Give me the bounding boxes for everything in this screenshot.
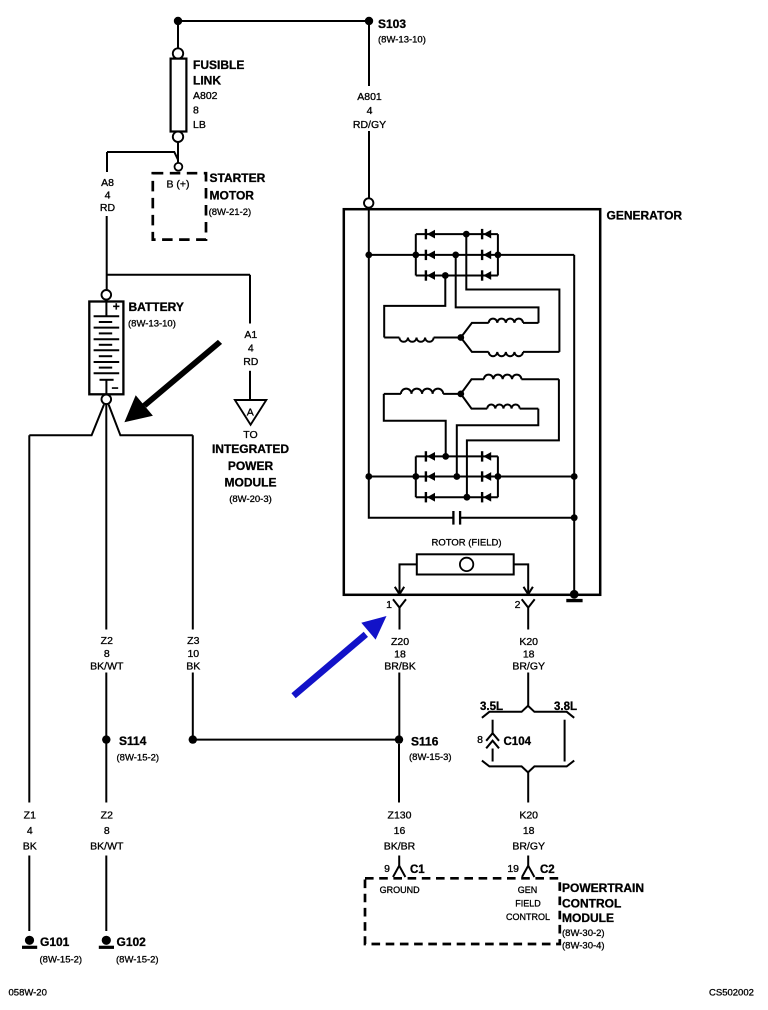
svg-text:16: 16 [394, 825, 406, 837]
connector C104 chevrons [486, 733, 499, 748]
wire fusible link to starter motor B(+) [177, 142, 179, 163]
svg-text:8: 8 [477, 734, 483, 746]
node dots on top bridge [365, 252, 372, 259]
svg-text:RD/GY: RD/GY [353, 119, 386, 131]
svg-text:POWERTRAIN: POWERTRAIN [562, 881, 644, 895]
svg-text:FUSIBLE: FUSIBLE [193, 58, 244, 72]
svg-text:4: 4 [105, 190, 111, 202]
wire stator phase A (top) [466, 234, 559, 352]
battery plates [105, 302, 107, 316]
svg-text:C1: C1 [410, 864, 425, 876]
svg-text:(8W-20-3): (8W-20-3) [229, 494, 272, 505]
wire lower phase A [467, 379, 559, 497]
wire Z1 left vertical [28, 435, 30, 802]
svg-text:(8W-30-2): (8W-30-2) [562, 928, 605, 939]
svg-text:GEN: GEN [518, 885, 538, 895]
svg-text:C2: C2 [540, 864, 555, 876]
stator winding lower wye: lower-right coil [461, 394, 487, 409]
svg-text:A: A [247, 407, 254, 419]
svg-text:G101: G101 [40, 935, 70, 949]
svg-text:BR/BK: BR/BK [384, 661, 416, 673]
battery bottom terminal circle [102, 395, 112, 405]
wire lower phase C [384, 394, 446, 457]
svg-text:Z2: Z2 [101, 810, 113, 822]
node capacitor-right junction [571, 514, 578, 521]
svg-text:K20: K20 [519, 810, 538, 822]
svg-text:S103: S103 [378, 17, 406, 31]
wire lower phase B [457, 409, 539, 477]
svg-text:BK: BK [23, 841, 37, 853]
svg-text:BR/GY: BR/GY [512, 661, 545, 673]
svg-text:9: 9 [384, 863, 390, 875]
ground G102 [102, 936, 111, 945]
svg-text:FIELD: FIELD [515, 899, 541, 909]
svg-text:4: 4 [27, 825, 33, 837]
svg-text:INTEGRATED: INTEGRATED [212, 442, 289, 456]
wire Z3 right vertical [192, 435, 194, 629]
svg-text:4: 4 [248, 343, 254, 355]
svg-text:(8W-15-2): (8W-15-2) [40, 955, 83, 966]
svg-text:(8W-13-10): (8W-13-10) [128, 319, 176, 330]
node upper wye center [457, 334, 464, 341]
wire A801 vertical [368, 25, 370, 86]
svg-text:STARTER: STARTER [210, 171, 266, 185]
svg-text:1: 1 [386, 599, 392, 611]
svg-text:18: 18 [394, 649, 406, 661]
svg-text:CONTROL: CONTROL [562, 897, 621, 911]
svg-text:BR/GY: BR/GY [512, 841, 545, 853]
svg-text:GENERATOR: GENERATOR [607, 209, 683, 223]
svg-text:CS502002: CS502002 [709, 988, 754, 999]
svg-text:4: 4 [367, 105, 373, 117]
svg-text:POWER: POWER [228, 459, 274, 473]
stator winding upper wye: left coil [384, 337, 399, 339]
svg-text:BK/WT: BK/WT [90, 841, 124, 853]
svg-text:8: 8 [193, 105, 199, 117]
svg-text:Z20: Z20 [391, 636, 409, 648]
svg-text:ROTOR (FIELD): ROTOR (FIELD) [431, 538, 501, 549]
fusible link F1 [173, 48, 183, 58]
svg-text:18: 18 [523, 825, 535, 837]
svg-text:LINK: LINK [193, 74, 221, 88]
wire K20 vertical (lower) [527, 772, 529, 802]
svg-text:8: 8 [104, 648, 110, 660]
stator winding upper wye: lower-right coil [461, 338, 489, 352]
svg-text:(8W-15-3): (8W-15-3) [409, 752, 452, 763]
svg-text:G102: G102 [117, 935, 147, 949]
pin terminal circle on generator top [364, 198, 373, 207]
svg-text:(8W-15-2): (8W-15-2) [117, 753, 160, 764]
svg-text:RD: RD [100, 202, 116, 214]
wire stator phase B (top) [456, 255, 539, 323]
svg-text:A8: A8 [101, 177, 114, 189]
starter motor box (dashed) [153, 173, 206, 239]
svg-text:8: 8 [104, 825, 110, 837]
svg-text:MOTOR: MOTOR [210, 189, 255, 203]
rectifier bridge bottom (6 diodes) [416, 456, 498, 497]
wire C104 3.8L branch [564, 720, 566, 762]
node S103 [365, 17, 373, 25]
svg-text:(8W-13-10): (8W-13-10) [378, 35, 426, 46]
svg-text:TO: TO [243, 429, 257, 441]
svg-text:058W-20: 058W-20 [9, 988, 47, 999]
wire A8 jog to A1 [107, 274, 250, 276]
svg-text:BATTERY: BATTERY [129, 300, 184, 314]
wire A1 vertical [249, 275, 251, 324]
svg-text:CONTROL: CONTROL [506, 912, 550, 922]
svg-text:BK: BK [186, 661, 200, 673]
wire A8 vertical [106, 152, 108, 172]
wire C104 3.5L branch [492, 720, 494, 733]
svg-text:A802: A802 [193, 90, 218, 102]
pin B(+) terminal circle [175, 163, 183, 171]
node junction left of S103 [174, 17, 182, 25]
wire A8 branch horizontal [107, 152, 178, 160]
svg-text:2: 2 [515, 599, 521, 611]
svg-text:+: + [113, 300, 120, 314]
powertrain control module box (dashed) [365, 878, 560, 944]
svg-text:Z3: Z3 [187, 635, 199, 647]
generator box [344, 209, 600, 595]
wire rotor to terminal 1 [400, 564, 417, 593]
node Z3 junction [189, 735, 197, 743]
svg-text:A801: A801 [357, 91, 382, 103]
stator winding upper wye: upper-right coil [461, 323, 489, 338]
svg-text:A1: A1 [244, 329, 257, 341]
svg-text:(8W-15-2): (8W-15-2) [116, 955, 159, 966]
wire Z2 center vertical [105, 404, 107, 630]
ground (generator case) [570, 590, 579, 599]
svg-text:RD: RD [243, 356, 259, 368]
svg-text:GROUND: GROUND [380, 885, 420, 895]
svg-text:BK/BR: BK/BR [384, 841, 416, 853]
wire S103 bus top horizontal [178, 20, 369, 22]
ground G101 [25, 936, 34, 945]
wire generator inner left vertical with capacitor row [369, 210, 453, 518]
svg-text:18: 18 [523, 649, 535, 661]
battery top terminal circle [102, 290, 112, 300]
connector triangle A to integrated power module [235, 400, 266, 425]
battery B1 [89, 302, 123, 395]
stator winding lower wye: upper-right coil [461, 379, 484, 394]
wire rotor to terminal 2 [514, 564, 529, 593]
wire Z130 vertical [398, 744, 400, 803]
stator winding lower wye: left coil [443, 393, 461, 395]
svg-text:MODULE: MODULE [562, 911, 614, 925]
blue arrow pointing to terminal 1 [291, 632, 368, 699]
node lower wye center [457, 391, 464, 398]
rectifier bridge top (6 diodes) [416, 234, 498, 275]
svg-text:Z1: Z1 [24, 810, 36, 822]
svg-text:−: − [111, 381, 118, 395]
svg-text:BK/WT: BK/WT [90, 661, 124, 673]
wire S103 to fusible link [177, 21, 179, 48]
black arrow pointing to battery negative [142, 340, 222, 408]
svg-text:S116: S116 [411, 735, 439, 749]
svg-text:LB: LB [193, 119, 206, 131]
svg-text:Z130: Z130 [388, 810, 412, 822]
wire generator inner right vertical [573, 255, 575, 594]
svg-text:19: 19 [507, 863, 519, 875]
svg-text:(8W-21-2): (8W-21-2) [209, 207, 252, 218]
svg-text:Z2: Z2 [101, 635, 113, 647]
wire S114 row to S116 [193, 739, 399, 741]
node S114 [102, 735, 110, 743]
capacitor C (generator suppression) [452, 511, 454, 525]
svg-text:K20: K20 [519, 636, 538, 648]
node dots on bottom bridge [365, 473, 372, 480]
wire battery negative fan-out [29, 405, 104, 436]
svg-text:C104: C104 [504, 736, 532, 748]
wire stator phase C (top) [384, 276, 445, 338]
svg-text:MODULE: MODULE [225, 476, 277, 490]
svg-text:B (+): B (+) [166, 179, 189, 191]
node S116 [395, 735, 403, 743]
svg-text:10: 10 [187, 648, 199, 660]
svg-text:(8W-30-4): (8W-30-4) [562, 941, 605, 952]
svg-text:S114: S114 [119, 734, 147, 748]
